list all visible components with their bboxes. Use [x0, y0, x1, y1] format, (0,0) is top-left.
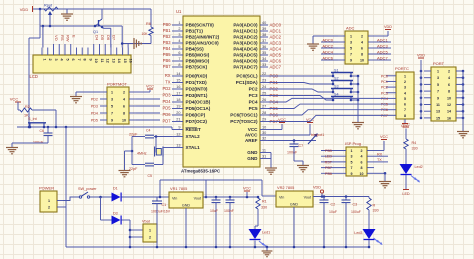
- svg-text:30: 30: [262, 131, 266, 135]
- svg-text:100nF: 100nF: [287, 151, 298, 155]
- svg-text:PB1(T1): PB1(T1): [186, 29, 204, 34]
- svg-text:LCD: LCD: [30, 74, 38, 79]
- svg-text:ADC6: ADC6: [270, 59, 282, 64]
- svg-text:PB6(MISO): PB6(MISO): [186, 59, 210, 64]
- svg-text:PORTMOT: PORTMOT: [107, 82, 127, 87]
- svg-text:3: 3: [111, 98, 113, 102]
- svg-text:3: 3: [351, 155, 353, 159]
- svg-text:16: 16: [447, 116, 451, 120]
- svg-text:R4: R4: [412, 141, 417, 145]
- svg-text:RS: RS: [60, 35, 65, 41]
- svg-text:AVCC: AVCC: [245, 133, 258, 138]
- svg-text:6: 6: [178, 51, 180, 55]
- svg-text:VDD: VDD: [20, 7, 29, 12]
- svg-text:15: 15: [176, 79, 180, 83]
- svg-text:VDD: VDD: [313, 186, 321, 190]
- svg-text:10: 10: [122, 119, 126, 123]
- svg-text:13: 13: [111, 59, 115, 63]
- svg-text:Vout: Vout: [194, 197, 201, 201]
- svg-text:PA0(ADC0): PA0(ADC0): [233, 23, 258, 28]
- svg-text:VCC: VCC: [146, 85, 154, 89]
- svg-text:26: 26: [262, 98, 266, 102]
- svg-text:8: 8: [83, 59, 87, 61]
- svg-text:9: 9: [350, 59, 352, 63]
- svg-text:36: 36: [262, 45, 266, 49]
- svg-text:13: 13: [436, 110, 440, 114]
- svg-text:3: 3: [404, 86, 406, 90]
- svg-text:PA6(ADC6): PA6(ADC6): [233, 59, 258, 64]
- svg-text:AREF: AREF: [245, 138, 258, 143]
- svg-text:12: 12: [106, 59, 110, 63]
- svg-text:PD2(INT0): PD2(INT0): [186, 87, 208, 92]
- svg-text:6: 6: [361, 160, 363, 164]
- svg-text:4: 4: [123, 98, 125, 102]
- svg-text:1: 1: [42, 59, 46, 61]
- svg-text:PD5: PD5: [91, 119, 98, 123]
- svg-text:8: 8: [448, 90, 450, 94]
- svg-text:PD7(OC2): PD7(OC2): [186, 119, 208, 124]
- svg-text:RST: RST: [325, 160, 333, 164]
- svg-text:9: 9: [88, 59, 92, 61]
- svg-text:PA1(ADC1): PA1(ADC1): [233, 29, 258, 34]
- svg-text:U1: U1: [176, 9, 182, 14]
- svg-text:9: 9: [111, 119, 113, 123]
- svg-text:GND: GND: [182, 204, 191, 208]
- svg-text:PA3(ADC3): PA3(ADC3): [233, 41, 258, 46]
- svg-text:R1: R1: [262, 200, 267, 204]
- svg-text:ADC2: ADC2: [322, 43, 333, 48]
- svg-text:6: 6: [404, 103, 406, 107]
- svg-text:PD3: PD3: [91, 105, 98, 109]
- svg-text:8: 8: [178, 63, 180, 67]
- svg-text:ADC3: ADC3: [270, 41, 282, 46]
- svg-text:7: 7: [351, 166, 353, 170]
- svg-text:Led3: Led3: [354, 231, 362, 235]
- svg-text:2: 2: [404, 80, 406, 84]
- svg-text:6: 6: [361, 47, 363, 51]
- svg-text:D6: D6: [106, 35, 111, 41]
- svg-text:7: 7: [350, 53, 352, 57]
- svg-text:10K: 10K: [141, 32, 148, 36]
- svg-text:24: 24: [262, 85, 266, 89]
- svg-text:12: 12: [447, 103, 451, 107]
- svg-text:3: 3: [54, 59, 58, 61]
- svg-text:4: 4: [404, 91, 406, 95]
- svg-text:PC7: PC7: [381, 114, 388, 118]
- svg-text:2: 2: [123, 91, 125, 95]
- svg-text:PB2: PB2: [163, 34, 171, 39]
- svg-text:VDD: VDD: [384, 25, 392, 29]
- svg-text:7: 7: [178, 57, 180, 61]
- svg-text:VCC: VCC: [402, 123, 410, 127]
- svg-text:1000uF/16V: 1000uF/16V: [151, 210, 171, 214]
- svg-text:6: 6: [71, 59, 75, 61]
- svg-text:PB0(SCK/T0): PB0(SCK/T0): [186, 23, 215, 28]
- svg-text:RX: RX: [377, 153, 383, 157]
- svg-text:PD3(INT1): PD3(INT1): [186, 93, 208, 98]
- svg-text:R6: R6: [146, 22, 151, 26]
- svg-text:4: 4: [178, 39, 180, 43]
- svg-text:5: 5: [65, 59, 69, 61]
- svg-text:3: 3: [178, 33, 180, 37]
- svg-text:4MHz: 4MHz: [137, 152, 147, 156]
- svg-text:31: 31: [262, 155, 266, 159]
- svg-text:PB4(SS): PB4(SS): [186, 47, 205, 52]
- svg-text:Vbat: Vbat: [142, 220, 151, 224]
- svg-text:PD1(TXD): PD1(TXD): [186, 80, 208, 85]
- svg-text:22: 22: [262, 72, 266, 76]
- svg-text:11: 11: [262, 149, 266, 153]
- svg-text:32: 32: [262, 137, 266, 141]
- svg-text:5: 5: [404, 97, 406, 101]
- svg-text:34: 34: [262, 57, 266, 61]
- svg-text:PD6: PD6: [163, 112, 172, 117]
- svg-text:6: 6: [123, 105, 125, 109]
- svg-text:PB5: PB5: [163, 52, 171, 57]
- svg-text:trimpot1: trimpot1: [311, 133, 324, 137]
- svg-text:1: 1: [437, 70, 439, 74]
- svg-text:PC4: PC4: [381, 97, 388, 101]
- svg-text:POWER: POWER: [39, 186, 54, 191]
- svg-text:19: 19: [176, 105, 180, 109]
- svg-text:PB5: PB5: [325, 149, 332, 153]
- svg-text:ADC6: ADC6: [322, 55, 333, 60]
- svg-text:ADC3: ADC3: [377, 43, 388, 48]
- svg-text:GND: GND: [247, 150, 258, 155]
- svg-text:17: 17: [176, 92, 180, 96]
- svg-text:TX: TX: [165, 80, 171, 85]
- svg-text:PC2: PC2: [249, 87, 258, 92]
- svg-text:LED: LED: [402, 192, 410, 196]
- svg-text:330: 330: [373, 209, 379, 213]
- svg-text:9: 9: [437, 96, 439, 100]
- svg-text:D5: D5: [100, 35, 105, 41]
- svg-text:PB6: PB6: [325, 172, 332, 176]
- svg-text:PC0(SCL): PC0(SCL): [236, 74, 258, 79]
- svg-text:ATmega8535-16PC: ATmega8535-16PC: [181, 169, 221, 174]
- svg-text:PD2: PD2: [163, 86, 172, 91]
- svg-text:PB6: PB6: [163, 58, 171, 63]
- svg-text:PA2(ADC2): PA2(ADC2): [233, 35, 258, 40]
- svg-text:PB0: PB0: [163, 22, 171, 27]
- svg-text:9: 9: [351, 172, 353, 176]
- svg-text:PD4: PD4: [91, 112, 98, 116]
- svg-text:R: R: [373, 204, 376, 208]
- svg-text:2: 2: [48, 206, 50, 210]
- svg-text:R2: R2: [25, 105, 30, 109]
- svg-text:12: 12: [176, 133, 180, 137]
- svg-text:16: 16: [176, 85, 180, 89]
- svg-text:Led2: Led2: [415, 165, 423, 169]
- svg-text:33: 33: [262, 63, 266, 67]
- svg-text:100uF: 100uF: [351, 210, 361, 214]
- svg-text:PB5(MOSI): PB5(MOSI): [186, 53, 210, 58]
- svg-text:25: 25: [262, 92, 266, 96]
- svg-text:C1: C1: [162, 203, 167, 207]
- svg-text:18: 18: [176, 98, 180, 102]
- svg-text:1: 1: [149, 229, 151, 233]
- svg-text:330: 330: [261, 206, 267, 210]
- svg-text:Vout: Vout: [304, 196, 311, 200]
- svg-text:D1: D1: [113, 187, 118, 191]
- svg-text:PB3(AIN1/OC0): PB3(AIN1/OC0): [186, 41, 220, 46]
- svg-text:4: 4: [448, 76, 450, 80]
- svg-text:PA4(ADC4): PA4(ADC4): [233, 47, 258, 52]
- svg-text:15: 15: [436, 116, 440, 120]
- svg-text:100uF: 100uF: [33, 141, 44, 145]
- svg-text:11: 11: [436, 103, 440, 107]
- svg-text:11: 11: [100, 59, 104, 63]
- svg-text:PB7(SCK): PB7(SCK): [186, 65, 208, 70]
- svg-text:Vin: Vin: [172, 197, 177, 201]
- svg-text:8: 8: [361, 53, 363, 57]
- svg-text:C6: C6: [40, 129, 45, 133]
- svg-text:330: 330: [412, 147, 418, 151]
- svg-text:5: 5: [111, 105, 113, 109]
- svg-text:ADC7: ADC7: [270, 65, 282, 70]
- svg-text:PC7(TOSC2): PC7(TOSC2): [230, 119, 258, 124]
- svg-text:16: 16: [129, 59, 133, 63]
- svg-text:PC0: PC0: [381, 74, 388, 78]
- svg-text:Rpot: Rpot: [44, 4, 53, 8]
- svg-text:13: 13: [176, 144, 180, 148]
- svg-text:Led1: Led1: [262, 231, 270, 235]
- svg-text:7: 7: [111, 112, 113, 116]
- svg-text:4: 4: [361, 41, 363, 45]
- svg-text:ADC7: ADC7: [377, 55, 388, 60]
- svg-text:4: 4: [361, 155, 363, 159]
- svg-text:PD7: PD7: [163, 119, 172, 124]
- svg-text:27: 27: [262, 105, 266, 109]
- svg-text:RX: RX: [165, 73, 171, 78]
- svg-text:VR2 7805: VR2 7805: [277, 185, 294, 190]
- svg-text:C5: C5: [148, 174, 153, 178]
- svg-text:8: 8: [361, 166, 363, 170]
- svg-text:6: 6: [448, 83, 450, 87]
- svg-text:39: 39: [262, 27, 266, 31]
- svg-text:GND: GND: [247, 156, 258, 161]
- svg-text:35: 35: [262, 51, 266, 55]
- svg-text:VR1 7805: VR1 7805: [170, 186, 187, 191]
- svg-text:2: 2: [48, 59, 52, 61]
- svg-text:PD3: PD3: [163, 93, 172, 98]
- svg-text:PD5(OC1A): PD5(OC1A): [186, 106, 211, 111]
- svg-text:PB3: PB3: [163, 40, 171, 45]
- svg-text:PC1(SDA): PC1(SDA): [236, 80, 258, 85]
- svg-text:2: 2: [448, 70, 450, 74]
- svg-text:1: 1: [404, 74, 406, 78]
- svg-text:23: 23: [262, 79, 266, 83]
- svg-text:PD5: PD5: [163, 106, 172, 111]
- svg-text:PB1: PB1: [163, 28, 171, 33]
- svg-text:PB2(AIN0/INT2): PB2(AIN0/INT2): [186, 35, 220, 40]
- svg-text:PC5: PC5: [249, 106, 258, 111]
- svg-text:3: 3: [437, 76, 439, 80]
- svg-text:TX: TX: [377, 158, 382, 162]
- svg-text:1: 1: [48, 199, 50, 203]
- svg-text:GND: GND: [290, 203, 299, 207]
- svg-text:10uF: 10uF: [329, 210, 337, 214]
- svg-text:PC1: PC1: [381, 80, 388, 84]
- svg-text:ADC0: ADC0: [270, 23, 282, 28]
- svg-text:ADC1: ADC1: [270, 29, 282, 34]
- svg-text:21: 21: [176, 118, 180, 122]
- svg-text:ADC0: ADC0: [322, 37, 333, 42]
- svg-text:PD4(OC1B): PD4(OC1B): [186, 100, 211, 105]
- svg-text:VCC: VCC: [243, 187, 251, 191]
- svg-text:2: 2: [178, 27, 180, 31]
- svg-text:PB7: PB7: [325, 166, 332, 170]
- svg-text:PORTC: PORTC: [395, 66, 409, 71]
- svg-text:PC6: PC6: [381, 108, 388, 112]
- svg-text:VCC: VCC: [10, 97, 19, 102]
- svg-text:Vin: Vin: [279, 196, 284, 200]
- svg-text:100nF: 100nF: [224, 209, 234, 213]
- svg-text:10: 10: [360, 172, 364, 176]
- svg-text:10uF: 10uF: [210, 209, 218, 213]
- svg-text:C3: C3: [353, 203, 358, 207]
- svg-text:VCC: VCC: [380, 135, 388, 139]
- svg-text:14: 14: [176, 72, 180, 76]
- svg-text:D7: D7: [112, 35, 117, 41]
- svg-text:PC4: PC4: [249, 100, 258, 105]
- svg-text:D3: D3: [113, 212, 118, 216]
- svg-text:8: 8: [404, 114, 406, 118]
- svg-text:ADC5: ADC5: [377, 49, 388, 54]
- svg-text:22pF: 22pF: [129, 133, 138, 137]
- svg-text:40: 40: [262, 21, 266, 25]
- svg-text:10: 10: [360, 59, 364, 63]
- svg-text:PC3: PC3: [249, 93, 258, 98]
- svg-text:RW: RW: [66, 35, 71, 42]
- svg-text:5: 5: [437, 83, 439, 87]
- svg-text:PB7: PB7: [163, 64, 171, 69]
- svg-text:28: 28: [262, 111, 266, 115]
- svg-text:2: 2: [361, 35, 363, 39]
- svg-text:PD6(ICP): PD6(ICP): [186, 113, 206, 118]
- svg-text:5: 5: [178, 45, 180, 49]
- svg-text:2: 2: [149, 236, 151, 240]
- svg-text:ADC2: ADC2: [270, 35, 282, 40]
- svg-text:10: 10: [262, 126, 266, 130]
- svg-text:SW_power: SW_power: [78, 187, 97, 191]
- svg-text:5: 5: [351, 160, 353, 164]
- svg-text:38: 38: [262, 33, 266, 37]
- svg-text:LED: LED: [325, 155, 333, 159]
- svg-text:1: 1: [350, 35, 352, 39]
- svg-text:PC3: PC3: [381, 91, 388, 95]
- svg-text:1: 1: [178, 21, 180, 25]
- svg-text:PC5: PC5: [381, 103, 388, 107]
- svg-text:14: 14: [447, 110, 451, 114]
- svg-text:Q1: Q1: [93, 30, 98, 34]
- svg-text:PA7(ADC7): PA7(ADC7): [233, 65, 258, 70]
- svg-text:29: 29: [262, 118, 266, 122]
- svg-text:PB4: PB4: [163, 46, 171, 51]
- svg-text:RESET: RESET: [186, 127, 202, 132]
- svg-text:C2: C2: [331, 203, 336, 207]
- svg-text:2: 2: [361, 149, 363, 153]
- svg-text:PORT: PORT: [433, 61, 445, 66]
- svg-text:PA5(ADC5): PA5(ADC5): [233, 53, 258, 58]
- svg-text:ADC4: ADC4: [270, 47, 282, 52]
- svg-text:VO: VO: [54, 35, 59, 41]
- svg-text:C7: C7: [299, 144, 304, 148]
- svg-text:C4: C4: [146, 129, 151, 133]
- svg-text:7: 7: [77, 59, 81, 61]
- svg-text:ADC5: ADC5: [270, 53, 282, 58]
- svg-text:PD4: PD4: [163, 99, 172, 104]
- svg-text:9: 9: [178, 126, 180, 130]
- svg-text:1: 1: [351, 149, 353, 153]
- svg-text:D4: D4: [94, 35, 99, 41]
- svg-text:10: 10: [94, 59, 98, 63]
- svg-text:3: 3: [350, 41, 352, 45]
- svg-text:10: 10: [447, 96, 451, 100]
- svg-text:ADC1: ADC1: [377, 37, 388, 42]
- svg-text:S_int: S_int: [28, 117, 38, 121]
- svg-text:7: 7: [404, 108, 406, 112]
- svg-text:XTAL2: XTAL2: [186, 134, 201, 139]
- svg-text:5: 5: [350, 47, 352, 51]
- svg-text:E: E: [71, 35, 76, 38]
- svg-text:37: 37: [262, 39, 266, 43]
- svg-text:PD2: PD2: [91, 98, 98, 102]
- svg-text:VCC: VCC: [248, 127, 258, 132]
- svg-text:1: 1: [111, 91, 113, 95]
- svg-text:20: 20: [176, 111, 180, 115]
- svg-text:ISP Prog: ISP Prog: [345, 141, 361, 146]
- svg-text:ADC4: ADC4: [322, 49, 333, 54]
- svg-text:ADC: ADC: [346, 26, 355, 31]
- svg-text:15: 15: [123, 59, 127, 63]
- svg-text:PD0(RXD): PD0(RXD): [186, 74, 208, 79]
- svg-text:XTAL1: XTAL1: [186, 145, 201, 150]
- svg-text:PC6(TOSC1): PC6(TOSC1): [230, 113, 258, 118]
- svg-text:VDD: VDD: [417, 54, 425, 58]
- svg-text:PC2: PC2: [381, 86, 388, 90]
- svg-text:8: 8: [123, 112, 125, 116]
- svg-text:7: 7: [437, 90, 439, 94]
